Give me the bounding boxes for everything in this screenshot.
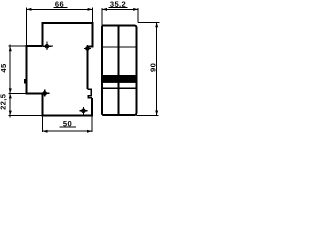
- crosshair C: [41, 90, 50, 97]
- front view divider: [118, 26, 120, 116]
- crosshair A: [43, 42, 51, 51]
- DIN clip notch: [87, 89, 92, 98]
- dim 90 right: [136, 22, 159, 115]
- svg-text:50: 50: [63, 119, 72, 128]
- crosshair D: [80, 107, 88, 114]
- body lower outline: [26, 46, 92, 115]
- front view line y47: [102, 46, 137, 48]
- dim 66: [26, 7, 92, 46]
- bump on fascia face: [24, 79, 26, 83]
- wire: fascia top line right arm: [43, 45, 54, 47]
- dim 45 / 22,5 left: [9, 45, 43, 118]
- crosshair B: [84, 45, 91, 54]
- wire: fascia bottom line right arm: [43, 92, 50, 94]
- svg-text:45: 45: [0, 63, 8, 73]
- front view black band: [101, 75, 137, 83]
- svg-text:35,2: 35,2: [110, 0, 126, 9]
- front view line y88: [102, 87, 137, 89]
- front view outer: [102, 26, 137, 116]
- dim 35,2: [102, 7, 138, 25]
- svg-text:90: 90: [148, 63, 157, 72]
- svg-text:22,5: 22,5: [0, 93, 8, 110]
- dim 50 bottom: [43, 116, 93, 132]
- side view body outline: [43, 23, 93, 89]
- dimension labels: [0, 0, 157, 128]
- svg-text:66: 66: [55, 0, 64, 9]
